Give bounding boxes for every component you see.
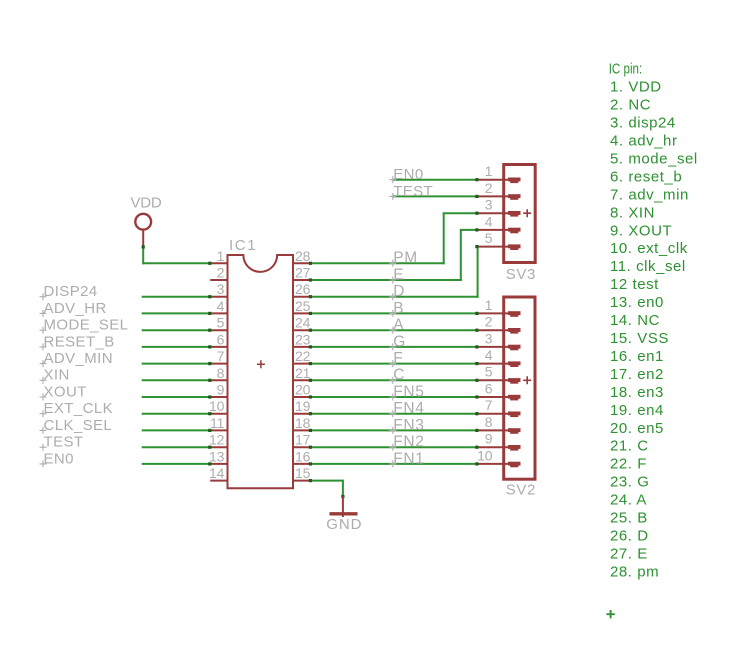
svg-text:24: 24 [295,315,311,331]
svg-text:14. NC: 14. NC [610,312,660,329]
svg-text:7: 7 [485,397,493,413]
svg-text:ADV_HR: ADV_HR [44,300,107,317]
svg-text:FN4: FN4 [393,400,424,417]
svg-text:27. E: 27. E [610,545,648,562]
svg-text:24. A: 24. A [610,492,647,509]
svg-text:IC1: IC1 [229,237,257,254]
svg-text:5: 5 [485,364,493,380]
svg-text:3: 3 [485,330,493,346]
svg-text:13. en0: 13. en0 [610,294,664,311]
svg-text:22: 22 [295,348,311,364]
svg-text:18. en3: 18. en3 [610,384,664,401]
svg-text:D: D [393,283,405,300]
svg-text:11. clk_sel: 11. clk_sel [610,258,686,275]
svg-text:TEST: TEST [393,183,433,200]
svg-text:GND: GND [326,516,362,533]
svg-text:17: 17 [295,432,311,448]
svg-text:26. D: 26. D [610,528,649,545]
svg-text:B: B [393,300,404,317]
svg-text:16: 16 [295,448,311,464]
svg-text:6. reset_b: 6. reset_b [610,168,682,185]
svg-text:4: 4 [485,347,493,363]
svg-text:27: 27 [295,265,311,281]
svg-text:8. XIN: 8. XIN [610,204,655,221]
svg-text:16. en1: 16. en1 [610,348,664,365]
svg-text:26: 26 [295,281,311,297]
svg-text:CLK_SEL: CLK_SEL [44,417,113,434]
svg-text:3. disp24: 3. disp24 [610,115,676,132]
svg-text:FN5: FN5 [393,383,424,400]
svg-text:9: 9 [217,382,225,398]
svg-text:15: 15 [295,465,311,481]
svg-text:23. G: 23. G [610,474,649,491]
svg-text:FN1: FN1 [393,450,424,467]
svg-text:2. NC: 2. NC [610,97,651,114]
svg-text:DISP24: DISP24 [44,283,98,300]
svg-text:10. ext_clk: 10. ext_clk [610,240,688,257]
svg-text:SV3: SV3 [506,266,536,283]
svg-text:FN2: FN2 [393,434,424,451]
svg-text:12 test: 12 test [610,276,659,293]
svg-text:4. adv_hr: 4. adv_hr [610,133,678,150]
svg-text:PM: PM [393,250,418,267]
svg-text:EN0: EN0 [44,450,74,467]
svg-text:TEST: TEST [44,434,84,451]
svg-text:2: 2 [217,265,225,281]
svg-text:19. en4: 19. en4 [610,402,664,419]
svg-text:14: 14 [209,465,225,481]
svg-text:SV2: SV2 [506,481,536,498]
svg-text:EN0: EN0 [393,166,423,183]
svg-text:RESET_B: RESET_B [44,333,115,350]
svg-text:8: 8 [485,414,493,430]
svg-text:6: 6 [485,380,493,396]
svg-text:FN3: FN3 [393,417,424,434]
svg-text:5. mode_sel: 5. mode_sel [610,151,698,168]
svg-text:7: 7 [217,348,225,364]
svg-text:11: 11 [210,415,225,431]
svg-text:3: 3 [217,281,225,297]
svg-text:9: 9 [485,431,493,447]
svg-text:MODE_SEL: MODE_SEL [44,317,129,334]
svg-text:1. VDD: 1. VDD [610,79,662,96]
svg-text:8: 8 [217,365,225,381]
svg-text:F: F [393,350,403,367]
svg-text:EXT_CLK: EXT_CLK [44,400,114,417]
svg-text:28: 28 [295,248,311,264]
svg-text:21. C: 21. C [610,438,649,455]
svg-text:17. en2: 17. en2 [610,366,664,383]
svg-text:18: 18 [295,415,311,431]
svg-text:XIN: XIN [44,367,70,384]
svg-text:5: 5 [485,230,493,246]
svg-text:1: 1 [217,248,225,264]
svg-text:ADV_MIN: ADV_MIN [44,350,113,367]
svg-text:5: 5 [217,315,225,331]
svg-text:7. adv_min: 7. adv_min [610,186,689,203]
svg-text:20: 20 [295,382,311,398]
svg-text:19: 19 [295,398,311,414]
svg-text:2: 2 [485,180,493,196]
svg-text:4: 4 [217,298,225,314]
svg-text:VDD: VDD [131,195,162,212]
svg-text:20. en5: 20. en5 [610,420,664,437]
svg-text:21: 21 [295,365,311,381]
svg-text:IC pin:: IC pin: [609,60,643,77]
svg-text:13: 13 [209,448,225,464]
svg-text:4: 4 [485,213,493,229]
svg-text:9. XOUT: 9. XOUT [610,222,672,239]
svg-text:3: 3 [485,197,493,213]
svg-text:10: 10 [477,447,493,463]
svg-text:XOUT: XOUT [44,383,87,400]
svg-text:1: 1 [485,297,493,313]
svg-text:A: A [393,317,404,334]
svg-text:15. VSS: 15. VSS [610,330,669,347]
svg-text:E: E [393,266,404,283]
svg-text:6: 6 [217,331,225,347]
svg-text:25. B: 25. B [610,510,648,527]
svg-text:23: 23 [295,331,311,347]
svg-text:G: G [393,333,406,350]
svg-text:1: 1 [485,163,493,179]
svg-text:22. F: 22. F [610,456,647,473]
svg-text:28. pm: 28. pm [610,563,659,580]
svg-text:C: C [393,367,405,384]
svg-text:12: 12 [209,432,225,448]
svg-text:25: 25 [295,298,311,314]
svg-text:2: 2 [485,314,493,330]
svg-text:10: 10 [209,398,225,414]
